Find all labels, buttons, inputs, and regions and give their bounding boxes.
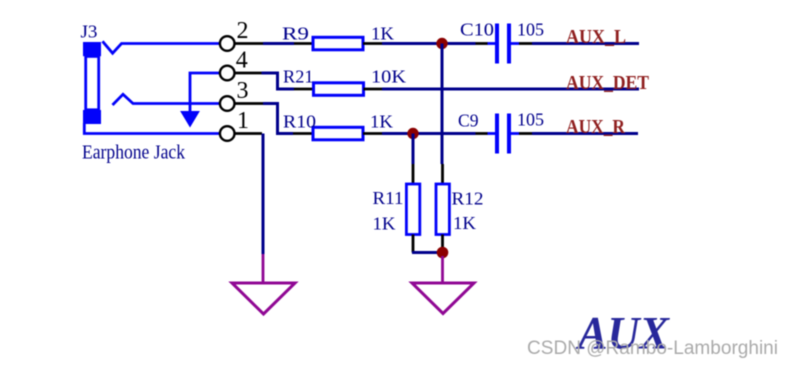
svg-text:R11: R11 (373, 188, 404, 208)
svg-text:R10: R10 (283, 111, 316, 131)
svg-text:R21: R21 (283, 67, 314, 87)
wire: jack tip contact to pin 2 (103, 41, 220, 53)
svg-text:R12: R12 (452, 189, 484, 209)
capacitor C10 right lead (519, 42, 532, 45)
wire: R10 to C9 (net AUX_R) (382, 132, 476, 135)
connector J3 earphone jack body (83, 42, 101, 124)
resistor R12 bottom lead (441, 235, 444, 250)
pin 1 lead (235, 132, 263, 135)
pin 2 lead (235, 42, 264, 45)
resistor R21 right lead (364, 88, 383, 91)
svg-text:C10: C10 (460, 19, 494, 39)
svg-text:AUX_R: AUX_R (566, 116, 625, 138)
pin 4 circle (220, 66, 235, 81)
svg-text:CSDN @Rambo-Lamborghini: CSDN @Rambo-Lamborghini (527, 338, 778, 359)
resistor R10 left lead (293, 132, 313, 135)
wire: pin 1 down to ground (262, 134, 265, 255)
wire: jack ring contact to pin 3 (113, 94, 220, 105)
resistor R12 (436, 184, 449, 235)
pin 1 circle (220, 126, 235, 141)
wire: net AUX_R (532, 132, 638, 135)
junction dot row A (436, 38, 447, 49)
svg-text:C9: C9 (458, 111, 479, 131)
resistor R11 top lead (412, 164, 415, 185)
wire: pin 2 to R9 (263, 42, 294, 45)
capacitor C9 (488, 114, 520, 154)
resistor R9 (313, 37, 363, 50)
svg-text:4: 4 (236, 48, 248, 74)
pin 2 circle (220, 36, 235, 51)
capacitor C9 right lead (519, 132, 532, 135)
wire: pin 4 to switch arrow (190, 73, 220, 112)
capacitor C10 (488, 24, 520, 64)
pin 3 lead (235, 102, 264, 105)
right ground symbol (412, 283, 474, 314)
resistor R21 left lead (294, 88, 314, 91)
left ground symbol (232, 283, 295, 314)
svg-text:1K: 1K (373, 214, 396, 234)
resistor R10 (313, 127, 363, 140)
svg-text:1K: 1K (371, 23, 394, 43)
resistor R11 (406, 184, 419, 235)
svg-text:R9: R9 (282, 23, 309, 43)
capacitor C10 left lead (476, 42, 489, 45)
wire: net AUX_L (532, 42, 639, 45)
switch arrow head (181, 112, 199, 127)
svg-text:1K: 1K (453, 213, 476, 233)
left ground stem (262, 254, 265, 283)
right ground stem (441, 256, 444, 283)
junction dot row C (407, 128, 418, 139)
svg-text:1: 1 (237, 108, 249, 134)
wire: jack sleeve to pin 1 (84, 123, 220, 134)
svg-text:AUX_DET: AUX_DET (566, 72, 650, 94)
svg-text:Earphone Jack: Earphone Jack (82, 142, 185, 164)
capacitor C9 left lead (476, 132, 489, 135)
wire: row A branch down to R12 (441, 44, 444, 165)
svg-text:1K: 1K (370, 111, 393, 131)
svg-text:105: 105 (517, 19, 544, 39)
svg-text:3: 3 (237, 78, 249, 104)
pin 4 lead (235, 72, 262, 75)
wire: net AUX_DET (382, 88, 639, 91)
wire: R11 to R12 bottom (412, 251, 443, 254)
resistor R12 top lead (441, 164, 444, 185)
wire: pin 4 dogleg to R21 (262, 73, 295, 89)
svg-text:AUX_L: AUX_L (566, 26, 626, 48)
wire: row C branch down to R11 (412, 134, 415, 165)
resistor R10 right lead (363, 132, 382, 135)
wire: R9 to C10 (net AUX_L) (382, 42, 476, 45)
svg-text:105: 105 (517, 110, 544, 130)
pin 3 circle (220, 96, 235, 111)
wire: pin 3 dogleg to R10 (263, 104, 293, 134)
junction dot bottom (437, 247, 449, 259)
resistor R11 bottom lead (412, 235, 415, 253)
resistor R9 left lead (294, 42, 313, 45)
svg-text:10K: 10K (371, 67, 406, 87)
svg-text:J3: J3 (81, 22, 98, 42)
resistor R21 (314, 83, 364, 96)
svg-text:2: 2 (237, 18, 249, 44)
resistor R9 right lead (363, 42, 382, 45)
